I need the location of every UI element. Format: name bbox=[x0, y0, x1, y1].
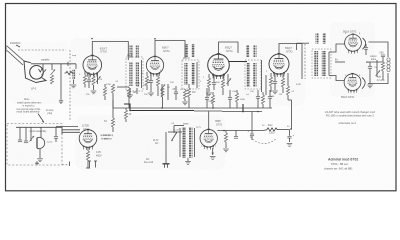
component value labels output bbox=[345, 33, 378, 77]
svg-text:1st IF: 1st IF bbox=[127, 54, 134, 57]
speaker coil L2 bbox=[387, 58, 390, 72]
svg-text:line cord: line cord bbox=[144, 161, 154, 164]
svg-text:10M: 10M bbox=[270, 96, 274, 98]
resistor R6 bbox=[156, 73, 159, 96]
svg-text:Note:: Note: bbox=[24, 98, 30, 101]
component value labels AF bbox=[266, 71, 302, 98]
ground bbox=[272, 91, 278, 94]
capacitor C18 bbox=[153, 139, 159, 145]
svg-text:400V: 400V bbox=[96, 154, 102, 157]
capacitor C1 bbox=[59, 64, 63, 104]
pickup head P1 bbox=[24, 61, 46, 83]
capacitor C6 bbox=[212, 75, 216, 90]
svg-text:resistor: resistor bbox=[104, 137, 112, 140]
motor M1 bbox=[37, 127, 53, 158]
ground bbox=[367, 85, 373, 88]
wire motor bus bbox=[16, 126, 62, 128]
resistor R14 bbox=[211, 92, 214, 108]
svg-text:.006: .006 bbox=[379, 53, 384, 55]
capacitor C10 bbox=[268, 90, 272, 108]
resistor R17 bbox=[269, 73, 272, 92]
resistor R12 bbox=[207, 74, 210, 92]
resistor R13 bbox=[221, 75, 224, 95]
antenna coil L1 bbox=[72, 64, 76, 84]
svg-text:GT/G: GT/G bbox=[163, 49, 170, 53]
label capacitors bbox=[136, 85, 176, 91]
wire V8 cathode bbox=[212, 148, 214, 155]
wire volume tap bbox=[242, 104, 244, 112]
wire cathode bbox=[96, 73, 101, 84]
label to amplifier bbox=[46, 109, 54, 115]
heater bus heavy bbox=[124, 104, 262, 112]
ground bbox=[210, 157, 216, 160]
label V4 bbox=[285, 46, 293, 53]
capacitor C8 bbox=[228, 90, 232, 108]
resistor R7 bbox=[161, 88, 164, 108]
label variable bbox=[41, 59, 50, 62]
svg-text:GT/G: GT/G bbox=[100, 50, 107, 54]
svg-text:100pf: 100pf bbox=[208, 101, 214, 103]
wire Z4 to V6 grid bbox=[329, 76, 344, 81]
note text right bbox=[325, 110, 375, 125]
capacitor C19 filter input bbox=[248, 112, 255, 141]
wire screen bbox=[335, 59, 345, 63]
junction dots bbox=[91, 38, 292, 130]
capacitor C3 bbox=[87, 72, 91, 88]
svg-text:2nd IF: 2nd IF bbox=[183, 57, 190, 60]
wire V5 plate bbox=[369, 42, 389, 57]
svg-text:220K: 220K bbox=[135, 83, 141, 85]
wire V4 plate bbox=[279, 44, 302, 80]
svg-text:117V: 117V bbox=[196, 127, 201, 129]
svg-text:1M: 1M bbox=[192, 91, 195, 94]
tube V5 50L6 output bbox=[345, 34, 362, 54]
misc labels mid band bbox=[115, 81, 282, 96]
wire bbox=[167, 84, 169, 100]
dashed chassis line bbox=[35, 161, 97, 168]
wire Z4 to V5 grid bbox=[329, 44, 345, 52]
component value labels det bbox=[203, 73, 249, 103]
wire box corner drop bbox=[61, 127, 63, 134]
svg-text:Admiral mod 6T02: Admiral mod 6T02 bbox=[328, 157, 358, 161]
power transformer T1 bbox=[180, 123, 195, 159]
tube V8 35Z5 rect bbox=[200, 129, 217, 150]
tube V1 6SK7 bbox=[83, 55, 102, 77]
resistor R8 bbox=[187, 84, 195, 108]
wire Z1 secondary bbox=[136, 88, 138, 94]
resistor R5 bbox=[145, 72, 148, 90]
title block bbox=[324, 157, 358, 170]
capacitor C16 bbox=[24, 127, 28, 142]
label V7 right bbox=[100, 134, 110, 140]
svg-text:spkr: spkr bbox=[377, 76, 382, 79]
tube V2 6SK7 IF bbox=[146, 56, 163, 77]
ground bbox=[37, 159, 43, 162]
svg-text:schematic no 2: schematic no 2 bbox=[339, 121, 357, 125]
svg-text:GT/G: GT/G bbox=[216, 123, 222, 126]
svg-text:RC-160 in models listed below: RC-160 in models listed below see note 2 bbox=[326, 114, 374, 118]
wire V6 plate bbox=[368, 73, 388, 84]
shield dashed arc bbox=[250, 137, 276, 144]
driver transformer ticks bbox=[297, 33, 326, 50]
svg-text:motor assembly: motor assembly bbox=[30, 130, 48, 133]
resistor R3 bbox=[92, 73, 95, 91]
wire tone bbox=[376, 60, 381, 77]
AC cord bbox=[144, 158, 170, 168]
svg-text:PHONO: PHONO bbox=[10, 41, 21, 45]
svg-text:motor board assembly: motor board assembly bbox=[17, 110, 41, 113]
svg-text:GT/G: GT/G bbox=[286, 49, 293, 53]
detector coil Z3 bbox=[245, 45, 262, 92]
svg-text:variable: variable bbox=[41, 59, 50, 62]
switch S1 bbox=[30, 127, 35, 141]
ground bbox=[127, 88, 133, 98]
wire V1 plate U bbox=[92, 42, 128, 61]
svg-text:chassis ser. 6A1 alt 6B1: chassis ser. 6A1 alt 6B1 bbox=[324, 167, 353, 171]
tube V7 bbox=[79, 129, 97, 150]
svg-text:plug: plug bbox=[48, 112, 53, 115]
svg-text:3.2 ohm: 3.2 ohm bbox=[377, 80, 385, 82]
switch arm 1 bbox=[42, 64, 47, 75]
svg-text:AC: AC bbox=[155, 142, 159, 145]
capacitor C4 bbox=[149, 73, 153, 92]
dashed lead bbox=[304, 44, 306, 79]
phono pickup label bbox=[10, 41, 21, 47]
label output bbox=[370, 55, 377, 61]
junction tick bbox=[67, 62, 69, 66]
svg-text:trans: trans bbox=[371, 58, 377, 61]
svg-text:GT/G: GT/G bbox=[226, 49, 233, 53]
capacitor C17 bbox=[54, 127, 58, 142]
svg-text:6SQ7: 6SQ7 bbox=[225, 46, 232, 50]
resistor R25 bleeder bbox=[224, 131, 227, 149]
label V2 bbox=[162, 46, 170, 53]
svg-text:24-A57 tube used with record c: 24-A57 tube used with record changer mod bbox=[325, 110, 375, 114]
svg-text:LP-1: LP-1 bbox=[31, 87, 37, 91]
svg-text:470K: 470K bbox=[106, 84, 112, 86]
capacitor C11 bbox=[273, 74, 277, 90]
svg-text:470K: 470K bbox=[296, 84, 302, 86]
scan wash bands bbox=[8, 22, 375, 170]
resistor R16 bbox=[261, 92, 264, 108]
resistor R1 bbox=[65, 71, 74, 74]
svg-text:1200: 1200 bbox=[269, 132, 275, 135]
ground bbox=[71, 85, 77, 88]
svg-text:is moved to: is moved to bbox=[23, 104, 36, 107]
resistor R2 bbox=[83, 71, 86, 88]
resistor R18 bbox=[281, 74, 284, 93]
wire rectifier cathode out bbox=[209, 112, 262, 132]
resistor R11 bbox=[183, 89, 186, 101]
svg-text:trans: trans bbox=[183, 123, 189, 126]
interstage transformer Z4 bbox=[312, 49, 331, 78]
filter resistor R24 bbox=[262, 124, 290, 135]
resistor R4 bbox=[103, 84, 106, 100]
tone arm bbox=[6, 45, 24, 65]
misc labels power bbox=[171, 123, 290, 148]
ground bbox=[206, 93, 212, 96]
capacitor C9 bbox=[256, 90, 260, 108]
capacitor C13 bbox=[368, 62, 372, 84]
svg-text:switch opens when arm: switch opens when arm bbox=[17, 102, 41, 105]
resistor R10 bbox=[127, 87, 135, 108]
wire bbox=[265, 75, 267, 95]
note text block bbox=[38, 114, 44, 123]
resistor R23 bbox=[124, 108, 131, 122]
wire dashed phono lead bbox=[18, 49, 66, 51]
capacitor C7 bbox=[205, 88, 209, 108]
component value labels stage1 bbox=[72, 55, 112, 96]
svg-text:6SK7: 6SK7 bbox=[162, 46, 169, 50]
switch arm 2 bbox=[50, 64, 55, 84]
svg-text:6T04 - 6B ser.: 6T04 - 6B ser. bbox=[331, 162, 349, 166]
wire grid return bbox=[117, 86, 129, 88]
svg-text:output: output bbox=[370, 55, 377, 58]
svg-text:GT: GT bbox=[83, 128, 87, 131]
ballast block bbox=[166, 131, 182, 163]
resistor R20 bbox=[381, 62, 384, 80]
dashed section divider bbox=[69, 50, 71, 120]
svg-text:22K: 22K bbox=[170, 82, 174, 84]
label R21 bbox=[96, 151, 102, 157]
wire bbox=[227, 74, 232, 86]
svg-text:1M: 1M bbox=[279, 94, 282, 96]
svg-text:50L6 GT/G: 50L6 GT/G bbox=[341, 95, 354, 99]
capacitor C20 filter output bbox=[287, 130, 294, 143]
tube V3 6SQ7 bbox=[208, 54, 230, 79]
tube V4 6SQ7 AF bbox=[269, 53, 289, 77]
label V3 bbox=[225, 46, 233, 53]
svg-text:10K: 10K bbox=[250, 91, 254, 93]
wire V3 plate U bbox=[219, 42, 239, 54]
wire B+ riser bbox=[291, 100, 293, 130]
resistor R9 bbox=[111, 84, 114, 108]
paper noise bbox=[5, 3, 396, 191]
svg-text:filter: filter bbox=[268, 124, 273, 127]
label V8 bbox=[215, 120, 222, 126]
ground bbox=[287, 144, 293, 147]
svg-text:rest post at edge of the: rest post at edge of the bbox=[17, 108, 42, 111]
ground bus bbox=[113, 107, 272, 109]
interconnect cable wires bbox=[56, 127, 80, 133]
wire pickup output bbox=[31, 63, 76, 65]
tube V6 50L6 output bbox=[344, 73, 361, 93]
label speaker bbox=[377, 76, 385, 82]
border frame bbox=[6, 4, 397, 191]
ground bbox=[185, 158, 191, 164]
svg-text:6SQ7: 6SQ7 bbox=[285, 46, 292, 50]
svg-text:500K: 500K bbox=[240, 99, 246, 101]
svg-text:2M: 2M bbox=[147, 82, 150, 84]
label R22 note bbox=[103, 134, 114, 140]
wire line input bbox=[174, 125, 184, 127]
label V7 bbox=[82, 125, 90, 131]
ground bbox=[148, 93, 154, 96]
resistor R21 bbox=[86, 147, 90, 168]
capacitor C5 bbox=[174, 86, 178, 100]
ground bbox=[182, 102, 188, 105]
svg-text:56K: 56K bbox=[216, 82, 220, 84]
svg-text:1M: 1M bbox=[133, 91, 136, 94]
IF transformer Z2 bbox=[182, 44, 199, 89]
label V1 bbox=[100, 46, 108, 53]
wire AVC bbox=[161, 84, 166, 97]
ground bbox=[91, 91, 97, 94]
capacitor C12 bbox=[364, 44, 368, 55]
resistor R22 bbox=[104, 100, 115, 132]
wire V2 plate U bbox=[155, 41, 185, 59]
capacitor C14 bbox=[379, 53, 385, 63]
record changer dashed box bbox=[7, 124, 62, 166]
capacitor C15 bbox=[18, 127, 22, 141]
component value labels stage2 bbox=[142, 70, 184, 96]
svg-text:4 pole: 4 pole bbox=[47, 142, 54, 144]
resistor R19 bbox=[286, 73, 289, 100]
IF transformer Z1 bbox=[126, 45, 143, 91]
ground bbox=[223, 149, 229, 152]
wire detector output bbox=[229, 61, 247, 63]
resistor R15 bbox=[235, 90, 238, 108]
